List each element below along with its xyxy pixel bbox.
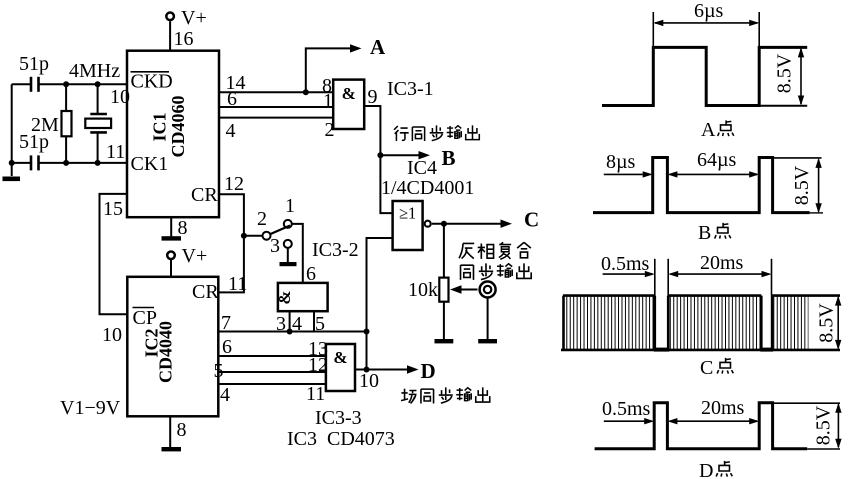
svg-text:CKD: CKD — [131, 71, 173, 93]
node: dot 2M top — [63, 81, 69, 87]
svg-text:20ms: 20ms — [701, 397, 745, 419]
wire: connector to ground — [487, 298, 489, 340]
waveform D low reference extension — [807, 448, 840, 450]
wire: contact 1 to IC3-2 pin 6 — [292, 224, 303, 283]
arrow to node B — [419, 151, 431, 159]
waveform B 8us arrow — [604, 171, 653, 177]
wire: branch up to node A — [306, 48, 352, 92]
label A dian — [701, 119, 734, 141]
svg-text:CD4040: CD4040 — [156, 321, 176, 383]
svg-text:CK1: CK1 — [131, 153, 169, 175]
waveform C hatch block 1 — [564, 296, 655, 350]
svg-text:2: 2 — [257, 208, 267, 230]
IC4 output inversion bubble — [425, 221, 431, 227]
svg-text:0.5ms: 0.5ms — [602, 398, 651, 420]
svg-text:2: 2 — [325, 119, 335, 141]
wire: IC3-1 output down to node B — [364, 106, 380, 155]
wire: IC2 pin 5 to IC3-3 pin 12 — [218, 371, 326, 373]
svg-text:V1−9V: V1−9V — [60, 397, 121, 419]
svg-text:&: & — [275, 290, 294, 304]
node: dot switch common — [241, 233, 247, 239]
switch S1 contact 3 — [284, 240, 292, 248]
svg-text:15: 15 — [103, 198, 123, 220]
svg-text:8: 8 — [177, 419, 187, 441]
svg-text:CR: CR — [192, 281, 219, 303]
potentiometer RP 10k body — [439, 278, 448, 302]
IC4 NOR gate box — [393, 201, 423, 250]
wire: D vertical line to IC4 input — [367, 238, 393, 370]
svg-text:V+: V+ — [181, 7, 207, 29]
waveform C hatch block 2 — [668, 296, 761, 350]
svg-text:CP: CP — [133, 307, 157, 329]
wire: left feedback rail — [11, 84, 13, 176]
svg-text:16: 16 — [174, 28, 194, 50]
svg-text:10k: 10k — [408, 279, 438, 301]
svg-text:IC3-1: IC3-1 — [387, 78, 434, 100]
node: dot pins 3,4 on bus — [287, 329, 293, 335]
svg-text:C: C — [700, 357, 713, 379]
wire: oscillator top rail — [12, 83, 127, 85]
IC3-3 AND gate box — [326, 344, 355, 391]
svg-text:&: & — [333, 348, 347, 367]
wire: pin 15 IC1 to pin 10 IC2 — [100, 194, 128, 314]
switch S1 contact 2 — [263, 232, 271, 240]
svg-text:IC3-3: IC3-3 — [315, 407, 362, 429]
waveform B 8.5V arrow — [815, 158, 821, 213]
svg-text:B: B — [442, 146, 456, 170]
svg-text:6µs: 6µs — [694, 0, 724, 22]
svg-text:1: 1 — [285, 195, 295, 217]
switch S1 blade — [271, 226, 291, 235]
svg-text:20ms: 20ms — [700, 252, 744, 274]
svg-text:D: D — [421, 359, 436, 383]
svg-text:10: 10 — [102, 324, 122, 346]
pin label CP with overline — [133, 307, 157, 329]
svg-text:4MHz: 4MHz — [69, 60, 120, 82]
wire: contact 3 to ground — [287, 248, 289, 262]
svg-text:3: 3 — [270, 235, 280, 257]
waveform C top line segments — [563, 294, 840, 297]
wire: IC4 output to node C — [432, 223, 503, 225]
wire: IC3-3 output pin 10 — [355, 369, 367, 371]
waveform A trace — [602, 47, 807, 105]
svg-text:C: C — [524, 208, 539, 232]
arrow to node D — [407, 365, 419, 373]
svg-text:8.5V: 8.5V — [774, 53, 796, 93]
node: dot B junction — [377, 152, 383, 158]
waveform D 8.5V arrow — [835, 403, 841, 449]
label 场同步输出 (field sync output) — [401, 387, 490, 403]
waveform C sync notch edges — [564, 296, 773, 350]
svg-text:≥1: ≥1 — [399, 204, 416, 223]
svg-text:7: 7 — [221, 312, 231, 334]
waveform A 6us dimension arrow — [653, 20, 759, 26]
svg-text:1/4CD4001: 1/4CD4001 — [381, 177, 474, 199]
wire: arrow to node D — [367, 369, 410, 371]
ground (connector) — [478, 339, 497, 343]
svg-text:9: 9 — [368, 86, 378, 108]
waveform C notch bottoms — [654, 348, 773, 352]
ground (oscillator) — [3, 177, 21, 182]
svg-text:10: 10 — [110, 86, 130, 108]
label 同步输出 (sync output) — [461, 263, 532, 280]
label D dian — [699, 460, 732, 479]
waveform A extension lines — [653, 12, 759, 47]
waveform C hatch block 3 — [772, 296, 808, 350]
svg-text:51p: 51p — [19, 53, 49, 75]
svg-text:8.5V: 8.5V — [816, 303, 838, 343]
arrow to node A — [350, 44, 362, 52]
svg-text:IC4: IC4 — [407, 157, 437, 179]
svg-text:CD4060: CD4060 — [168, 96, 188, 158]
label 反相复合 (inverted composite) — [459, 242, 531, 259]
waveform C 0.5ms arrow — [603, 271, 655, 277]
node: dot output to pot — [441, 221, 447, 227]
wire: IC1 pin 12 CR down to switch/CR2 — [218, 194, 244, 292]
wire: bus IC2 pin7 to D line — [218, 331, 366, 333]
node: dot crystal top — [95, 81, 101, 87]
V+ terminal IC2 — [167, 252, 175, 277]
svg-text:8.5V: 8.5V — [813, 405, 835, 445]
svg-text:&: & — [342, 84, 356, 103]
waveform A low reference line — [759, 105, 807, 107]
svg-text:10: 10 — [359, 370, 379, 392]
wire: arrow to node B — [380, 154, 420, 156]
switch S1 contact 1 — [284, 220, 292, 228]
svg-text:4: 4 — [226, 120, 236, 142]
node: dot bus meets D line — [364, 329, 370, 335]
waveform D 20ms dimension arrow — [667, 418, 759, 424]
V+ terminal IC1 — [166, 12, 174, 50]
capacitor 51p bottom — [31, 155, 39, 170]
IC3-1 AND gate box — [333, 80, 364, 129]
svg-text:IC3 CD4073: IC3 CD4073 — [287, 428, 395, 450]
wire: IC2 pin 4 to IC3-3 pin 11 — [218, 383, 326, 385]
waveform D 0.5ms arrow — [604, 418, 654, 424]
wire: oscillator bottom rail — [12, 162, 127, 164]
svg-text:4: 4 — [220, 384, 230, 406]
svg-text:V+: V+ — [182, 245, 208, 267]
IC3-2 AND gate box (horizontal) — [278, 283, 328, 311]
node: dot crystal bottom — [95, 160, 101, 166]
svg-text:A: A — [701, 119, 716, 141]
waveform C 20ms dimension arrow — [668, 271, 771, 277]
svg-text:11: 11 — [106, 141, 125, 163]
svg-text:6: 6 — [227, 88, 237, 110]
ground (switch contact 3) — [280, 262, 297, 266]
waveform B trace — [593, 158, 810, 213]
svg-text:2M: 2M — [31, 114, 59, 136]
pin 8 wire and ground (IC2) — [162, 416, 182, 451]
wire: IC2 pin 6 to IC3-3 pin 13 — [218, 355, 326, 357]
svg-text:IC3-2: IC3-2 — [312, 239, 359, 261]
node: junction dot bottom-left — [9, 160, 15, 166]
waveform C extension lines — [655, 259, 772, 296]
IC1 CD4060 box — [127, 51, 219, 218]
svg-text:8µs: 8µs — [606, 151, 636, 173]
wire: dot to switch contact 2 — [244, 235, 262, 237]
svg-text:8: 8 — [178, 217, 188, 239]
waveform D trace — [595, 403, 808, 449]
svg-text:11: 11 — [228, 273, 247, 295]
arrow to node C — [501, 220, 513, 228]
svg-text:11: 11 — [306, 383, 325, 405]
pin 8 wire and ground (IC1) — [162, 217, 182, 240]
wire: pot bottom to ground — [443, 302, 445, 339]
potentiometer wiper arrow — [450, 285, 478, 293]
node: dot A-branch on pin 8 wire — [303, 89, 309, 95]
waveform B low reference extension — [810, 212, 823, 214]
label C dian — [700, 357, 733, 379]
svg-text:5: 5 — [214, 360, 224, 382]
waveform C bottom line — [561, 349, 840, 352]
wire: IC3-2 pin 5 stub — [313, 311, 315, 331]
svg-text:6: 6 — [222, 336, 232, 358]
waveform D high reference line — [773, 402, 840, 404]
svg-text:64µs: 64µs — [697, 149, 737, 171]
svg-text:8.5V: 8.5V — [791, 165, 813, 205]
node: dot 2M bottom — [63, 160, 69, 166]
waveform B 64us dimension arrow — [667, 171, 759, 177]
label 行同步输出 (line sync output) — [394, 125, 479, 141]
waveform B high reference line — [773, 157, 822, 159]
output connector J1 — [480, 282, 496, 298]
crystal X1 4MHz — [85, 84, 111, 163]
wire: IC1 pin 14 to IC3-1 pin 8 — [219, 91, 333, 93]
svg-text:0.5ms: 0.5ms — [601, 253, 650, 275]
capacitor 51p top — [31, 77, 39, 92]
svg-text:CR: CR — [191, 184, 218, 206]
svg-text:1: 1 — [323, 90, 333, 112]
wire: IC1 pin 6 to IC3-1 pin 1 — [219, 106, 333, 108]
IC2 CD4040 box — [127, 277, 218, 417]
node: dot D output — [364, 367, 370, 373]
wire: IC1 pin 4 to IC3-1 pin 2 — [219, 117, 333, 119]
svg-text:A: A — [370, 35, 386, 59]
svg-text:B: B — [698, 222, 711, 244]
resistor R1 2M — [62, 84, 72, 163]
svg-text:IC1: IC1 — [150, 112, 170, 141]
ground (potentiometer) — [435, 339, 454, 343]
waveform C 8.5V arrow — [835, 296, 841, 350]
label B dian — [698, 222, 731, 244]
pin label CKD with overline — [131, 71, 173, 93]
wire: B node down into IC4 input — [380, 155, 392, 213]
svg-text:12: 12 — [224, 173, 244, 195]
wire: node C dot down to potentiometer — [443, 224, 445, 278]
waveform A 8.5V arrow — [798, 47, 804, 105]
wire: IC3-2 pins 3,4 stub to bus — [289, 311, 291, 331]
svg-text:D: D — [699, 460, 713, 479]
